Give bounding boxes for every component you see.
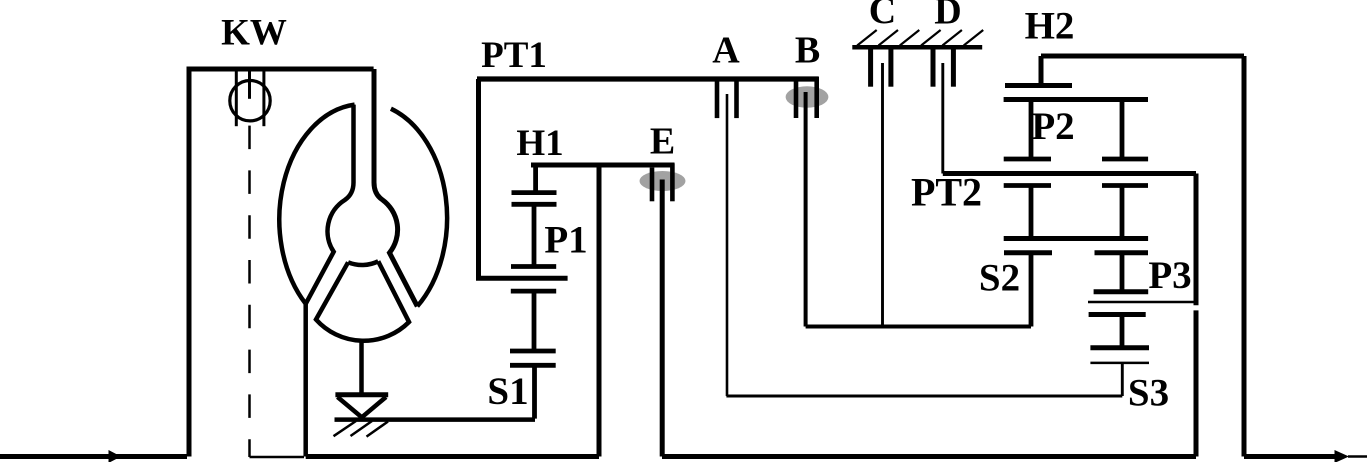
highlight ellipse on clutch E <box>640 171 686 191</box>
ring gear H2 stem <box>1039 56 1044 84</box>
S3 joint thin bar <box>1090 362 1149 365</box>
wire: S2 stem down <box>1029 253 1034 327</box>
svg-text:S3: S3 <box>1128 372 1169 415</box>
wire: bottom input line (left) <box>0 454 187 459</box>
svg-text:E: E <box>650 121 675 163</box>
highlight ellipse on clutch B <box>786 86 829 107</box>
damper left plate <box>235 72 238 127</box>
wire: C shaft down to S2 line <box>881 63 884 327</box>
clutch B left plate <box>794 81 799 118</box>
brake D left plate <box>931 49 936 86</box>
lower row long bottom bar <box>1004 236 1148 241</box>
carrier PT1 line <box>476 276 568 281</box>
sun S3 bottom bar <box>1090 345 1149 350</box>
svg-text:S1: S1 <box>487 370 528 413</box>
lower row left leg <box>1029 186 1034 239</box>
planet P1 top bar <box>512 202 557 207</box>
sun S2 bar <box>1004 250 1052 255</box>
wire: S3 stem down to A line <box>1121 363 1124 396</box>
planet P1 bottom bar <box>511 264 556 269</box>
planet P3 bottom bar <box>1094 289 1149 294</box>
damper on KW shaft (circle) <box>230 81 270 121</box>
clutch A right plate <box>734 81 739 118</box>
sun S1 upper bar <box>510 349 556 354</box>
carrier PT2 line <box>943 171 1196 176</box>
brake housing hatching <box>857 30 983 46</box>
clutch B right plate <box>814 77 819 118</box>
svg-text:PT1: PT1 <box>481 35 547 76</box>
ring gear H1 stem <box>533 165 538 193</box>
wire: A to S3 line <box>726 395 1122 398</box>
svg-text:H2: H2 <box>1025 5 1075 48</box>
wire: H1 line <box>531 163 675 168</box>
planet P2 long top bar <box>1004 97 1148 102</box>
wire: A shaft down <box>726 94 729 396</box>
torque converter shell left arc <box>279 105 354 304</box>
brake C right plate <box>888 49 893 86</box>
torque converter turbine flask right side <box>374 69 417 306</box>
wire: D shaft down to PT2 line <box>941 63 944 174</box>
wire: dashed shaft from damper down <box>248 126 251 457</box>
wire: B shaft down <box>804 92 808 327</box>
wire: bottom line right middle segment <box>662 454 1196 459</box>
stator stem down to one-way support <box>359 341 364 394</box>
wire: H2 top line <box>1041 54 1244 59</box>
ring gear H1 bar <box>512 190 557 195</box>
wire: left vertical from input up to KW line <box>187 69 192 457</box>
lower gear row right head bar <box>1102 183 1148 188</box>
wire: KW crankshaft top line <box>187 67 374 72</box>
planet P2 left leg <box>1029 100 1034 160</box>
wire: PT2 right arm down <box>1194 174 1199 306</box>
svg-text:H1: H1 <box>516 123 563 164</box>
svg-text:P3: P3 <box>1148 254 1191 297</box>
wire: PT1 top line to clutches A,B <box>477 76 819 81</box>
wire: bottom line middle segment <box>306 454 599 459</box>
damper center stem <box>248 72 251 99</box>
torque converter circle bottom arc <box>348 261 378 265</box>
wire: thin connector at bottom of dashed shaft <box>250 456 305 459</box>
torque converter shell right arc <box>391 109 447 307</box>
sun S3 body <box>1120 315 1125 348</box>
clutch E left plate <box>650 168 655 202</box>
wire: converter shell output down to bottom line <box>303 304 308 457</box>
ground hatching <box>334 421 389 437</box>
torque converter stator sector <box>316 261 409 341</box>
damper right plate <box>262 72 265 127</box>
planet P3 top bar <box>1095 250 1149 255</box>
arrow: output direction <box>1335 450 1350 462</box>
P1 lower joint bar <box>511 289 556 294</box>
wire: E shaft down to bottom line <box>660 180 665 457</box>
planet P1 body <box>532 204 537 266</box>
sun S3 top bar <box>1089 312 1146 317</box>
svg-text:B: B <box>795 30 820 72</box>
wire: H2 right vertical to output <box>1242 56 1247 457</box>
svg-text:D: D <box>934 0 961 33</box>
svg-text:PT2: PT2 <box>911 170 982 215</box>
P2 right foot bar <box>1102 157 1148 162</box>
wire: output line tail <box>1348 455 1367 458</box>
arrow: input direction <box>109 450 122 462</box>
planet P3 body <box>1120 253 1125 292</box>
lower gear row left head bar <box>1004 183 1051 188</box>
brake housing line for C and D <box>852 45 982 50</box>
brake C left plate <box>868 49 873 86</box>
wire: S1 shaft down to ground line <box>532 365 537 418</box>
svg-text:C: C <box>869 0 896 32</box>
planet P2 right leg <box>1120 100 1125 160</box>
clutch A left plate <box>715 81 720 118</box>
brake D right plate <box>951 49 956 86</box>
wire: bottom output line right <box>1244 454 1336 459</box>
svg-text:KW: KW <box>221 13 287 54</box>
sun S1 lower bar <box>510 363 556 368</box>
svg-text:P2: P2 <box>1031 105 1074 148</box>
wire: B/C to S2 line <box>806 325 1031 329</box>
svg-text:A: A <box>712 30 740 72</box>
P2 left foot bar <box>1004 157 1051 162</box>
svg-text:S2: S2 <box>979 257 1020 300</box>
wire: PT1 left vertical <box>476 79 481 278</box>
clutch E right plate <box>670 163 675 201</box>
ground symbol triangle <box>338 397 387 417</box>
torque converter turbine flask left side <box>306 105 354 304</box>
ground symbol top bar <box>335 392 388 397</box>
sun S1 stem upper <box>532 291 537 351</box>
PT2 joint thin bar under P3 <box>1088 301 1195 304</box>
wire: vertical H1-line to bottom line <box>597 166 602 457</box>
ring gear H2 bar <box>1005 83 1072 88</box>
lower row right leg <box>1120 186 1125 239</box>
svg-text:P1: P1 <box>544 219 587 262</box>
wire: output vertical lower right <box>1194 310 1199 456</box>
ground line (housing) <box>335 417 536 422</box>
